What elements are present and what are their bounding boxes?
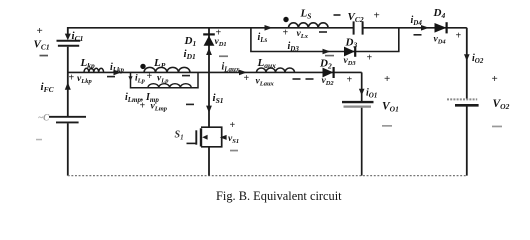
label - of VFC (faint) <box>36 139 42 141</box>
label - of VO1 <box>382 125 392 127</box>
current arrow iD1 <box>206 48 212 55</box>
wire D3 branch <box>251 28 399 52</box>
label - of VC1 <box>40 55 49 57</box>
diode D1 <box>204 36 215 46</box>
diode D2 <box>323 68 334 78</box>
wire left vertical (FC branch) <box>67 27 69 176</box>
current arrow iO1 <box>359 89 365 96</box>
current arrow iD4 <box>421 25 429 31</box>
svg-text:+: + <box>384 73 390 85</box>
svg-text:~C: ~C <box>38 112 50 122</box>
svg-text:+: + <box>367 52 373 63</box>
current arrow iLaux <box>239 70 247 76</box>
label - vD3 + <box>325 55 334 57</box>
inductor Laux <box>257 68 295 72</box>
wire primary rail <box>68 71 362 73</box>
svg-text:+: + <box>140 100 146 111</box>
wire VO1 branch <box>361 72 363 175</box>
current arrow iS1 <box>206 106 212 113</box>
current arrow iLs <box>265 25 273 31</box>
svg-text:Fig. B. Equivalent circuit: Fig. B. Equivalent circuit <box>216 189 342 203</box>
current arrow iC1 <box>65 34 71 41</box>
capacitor VO2 <box>447 98 477 100</box>
capacitor C1 <box>57 41 81 46</box>
transistor S1 (MOSFET) <box>187 127 222 147</box>
node dot (Lp polarity) <box>140 64 145 69</box>
current arrow iD3 <box>323 49 331 55</box>
capacitor VO1 <box>342 101 374 103</box>
diode D3 <box>344 47 355 57</box>
current arrow iFC <box>65 82 71 90</box>
node dot (Ls polarity) <box>283 17 288 22</box>
svg-text:+: + <box>147 71 153 82</box>
battery fuel-cell source <box>49 117 86 123</box>
current arrow iLkp <box>114 70 122 76</box>
capacitor C2 <box>354 21 363 34</box>
inductor Lp <box>144 67 190 72</box>
wire D1/S1 vertical <box>208 28 210 176</box>
inductor Lmp <box>148 84 191 88</box>
svg-text:+: + <box>283 28 289 39</box>
label - vD4 + <box>414 34 422 36</box>
svg-text:+: + <box>347 74 353 85</box>
inductor Lkp <box>84 68 104 72</box>
inductor Ls <box>289 23 329 28</box>
current arrow iLp <box>128 76 132 81</box>
wire top rail <box>68 27 467 29</box>
svg-text:+: + <box>37 25 43 37</box>
svg-text:+: + <box>492 73 498 85</box>
current arrow iO2 <box>464 54 470 61</box>
svg-text:+: + <box>244 73 250 84</box>
svg-text:+: + <box>230 120 236 131</box>
svg-text:+: + <box>456 31 462 42</box>
wire right vertical <box>466 28 468 176</box>
label - vD2 + <box>306 78 314 80</box>
wire bottom rail <box>68 175 467 177</box>
svg-text:+: + <box>374 10 380 22</box>
svg-text:+: + <box>69 73 75 84</box>
label - VC2 + <box>334 14 341 16</box>
diode D4 <box>435 23 447 33</box>
wire Lmp parallel box <box>131 72 199 87</box>
label - of VO2 <box>492 126 502 128</box>
